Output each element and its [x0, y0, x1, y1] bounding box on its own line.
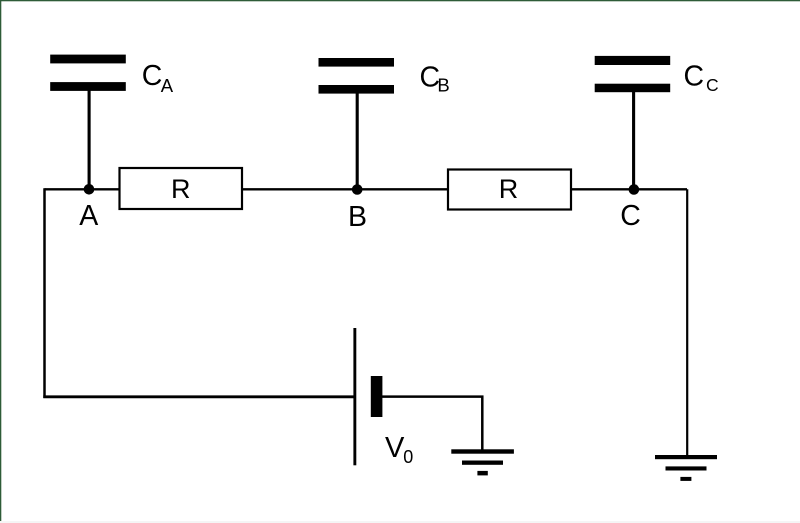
svg-text:C: C: [142, 60, 163, 92]
svg-text:C: C: [706, 75, 719, 95]
svg-text:0: 0: [403, 447, 413, 467]
svg-text:A: A: [161, 75, 174, 96]
svg-text:R: R: [499, 174, 519, 204]
svg-text:V: V: [385, 432, 405, 464]
svg-text:C: C: [620, 200, 641, 232]
svg-text:A: A: [79, 200, 98, 232]
svg-text:R: R: [171, 174, 191, 204]
svg-text:B: B: [348, 201, 367, 233]
svg-text:B: B: [437, 74, 449, 95]
svg-text:C: C: [684, 61, 705, 93]
